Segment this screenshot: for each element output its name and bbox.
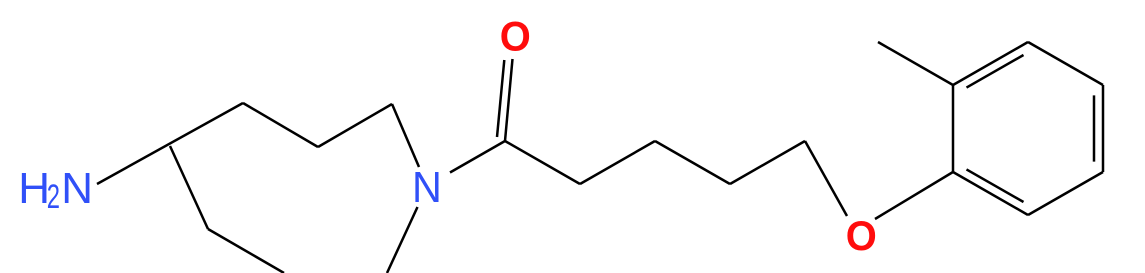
svg-text:O: O	[846, 212, 877, 259]
benzene ring edge C-D (right vertical)	[1102, 85, 1105, 172]
wire: chain bond C2-C3	[580, 141, 655, 184]
benzene inner double bond line C-D	[1093, 95, 1096, 161]
wire: chain bond C4-C5	[730, 141, 805, 184]
wire: ring bond apex1 to valley	[243, 103, 318, 147]
wire: amide bond N to carbonyl C	[450, 141, 505, 173]
wire: ring bond apex2 down to N label	[392, 104, 419, 167]
wire: ring bond down to bottom edge (clipped)	[208, 229, 284, 273]
wire: ring bond N label down-left to bottom edge (clipped)	[387, 207, 418, 273]
svg-text:O: O	[500, 13, 531, 60]
wire: bond H2N to ring C5 (collinear run through vertex 170,146 up to apex 243,103)	[97, 103, 243, 184]
benzene ring edge A-B (top-left)	[953, 42, 1028, 85]
carbonyl C=O double bond main line	[505, 59, 513, 141]
benzene ring edge F-A (left vertical)	[952, 85, 955, 172]
wire: chain bond C3-C4	[655, 141, 730, 184]
benzene ring edge D-E (bottom-right)	[1028, 172, 1103, 215]
svg-text:2: 2	[47, 178, 60, 216]
label H2N amine	[18, 164, 93, 216]
wire: bond ether O to benzene ipso carbon	[875, 172, 953, 219]
carbonyl C=O double bond second line	[497, 60, 504, 137]
wire: chain bond C5 steep down to ether O	[805, 141, 847, 216]
benzene ring edge B-C (top-right)	[1028, 42, 1103, 85]
svg-text:N: N	[61, 164, 93, 213]
benzene ring edge E-F (bottom-left)	[953, 172, 1028, 215]
svg-text:H: H	[18, 164, 50, 213]
wire: ring bond valley to apex2	[318, 104, 392, 147]
benzene inner double bond line E-F	[967, 169, 1024, 202]
svg-text:N: N	[412, 163, 442, 212]
wire: ring bond C5 steep down-right	[170, 146, 208, 229]
wire: chain bond C1-C2	[505, 141, 580, 184]
benzene inner double bond line A-B	[967, 55, 1024, 88]
methyl bond on ortho carbon	[878, 42, 953, 85]
